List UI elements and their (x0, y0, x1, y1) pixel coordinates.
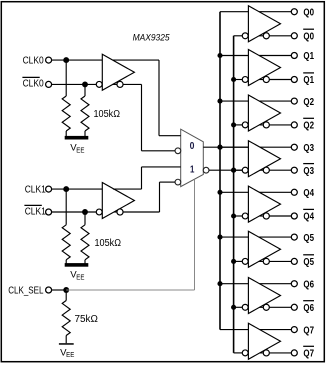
svg-text:Q0: Q0 (303, 7, 314, 18)
svg-text:Q6: Q6 (303, 303, 314, 314)
svg-text:CLK1: CLK1 (25, 207, 46, 218)
svg-text:Q0: Q0 (303, 32, 314, 43)
svg-text:Q7: Q7 (303, 349, 314, 360)
svg-text:MAX9325: MAX9325 (133, 32, 171, 43)
svg-text:105kΩ: 105kΩ (94, 109, 121, 120)
svg-text:75kΩ: 75kΩ (75, 314, 99, 325)
svg-text:Q5: Q5 (303, 257, 314, 268)
svg-text:CLK1: CLK1 (25, 184, 46, 195)
svg-text:Q2: Q2 (303, 121, 314, 132)
svg-text:CLK0: CLK0 (23, 79, 45, 90)
svg-text:EE: EE (76, 275, 84, 282)
svg-text:105kΩ: 105kΩ (95, 238, 122, 249)
svg-text:Q3: Q3 (303, 143, 314, 154)
svg-text:Q7: Q7 (303, 325, 314, 336)
svg-text:Q3: Q3 (303, 166, 314, 177)
svg-text:Q1: Q1 (303, 75, 314, 86)
svg-text:Q5: Q5 (303, 233, 314, 244)
svg-text:Q4: Q4 (303, 212, 314, 223)
svg-text:Q2: Q2 (303, 97, 314, 108)
svg-text:Q6: Q6 (303, 279, 314, 290)
svg-text:Q1: Q1 (303, 51, 314, 62)
svg-text:CLK_SEL: CLK_SEL (8, 285, 44, 296)
svg-text:EE: EE (66, 352, 74, 359)
svg-text:0: 0 (190, 141, 195, 152)
svg-text:1: 1 (190, 164, 195, 175)
svg-text:EE: EE (76, 147, 84, 154)
svg-text:CLK0: CLK0 (23, 55, 45, 66)
svg-text:Q4: Q4 (303, 188, 314, 199)
